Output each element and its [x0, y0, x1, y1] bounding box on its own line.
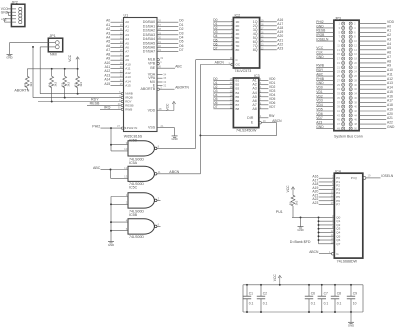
IC3 pin A8 (VD7)	[252, 105, 275, 111]
U1 pin RDY	[119, 98, 131, 104]
connector JP1 NMI	[48, 34, 62, 56]
svg-text:3k3: 3k3	[29, 82, 33, 87]
svg-text:74LS245DW: 74LS245DW	[236, 128, 257, 132]
svg-text:RESB: RESB	[90, 102, 100, 106]
connector JP3 System Bus	[334, 16, 363, 138]
U1 pin VSS / ground	[148, 124, 178, 141]
capacitor C9 10	[347, 284, 357, 313]
svg-text:3k3: 3k3	[295, 200, 299, 205]
svg-text:D7: D7	[213, 46, 217, 50]
wire JP3 A18	[359, 103, 393, 107]
wire RDY net	[38, 98, 121, 103]
JP3 pin 20	[349, 61, 357, 65]
ground at JP1	[6, 54, 12, 59]
IC2 pin 6Q (A21)	[253, 38, 284, 44]
U1 pin A8	[106, 52, 129, 58]
U1 pin MX	[150, 80, 167, 84]
svg-text:ABCN: ABCN	[169, 170, 179, 174]
ground at decoupling rail	[348, 312, 354, 328]
svg-text:PHI2: PHI2	[92, 124, 100, 128]
IC3 pin B1 (D0)	[213, 77, 239, 83]
JP3 pin 35	[337, 96, 345, 100]
IC3 pin A7 (VD6)	[252, 101, 275, 107]
svg-text:VCC: VCC	[68, 54, 72, 62]
svg-text:10: 10	[353, 302, 357, 306]
svg-text:C7: C7	[324, 292, 328, 296]
svg-text:13: 13	[124, 175, 128, 179]
IC3 pin B2 (D1)	[213, 81, 239, 87]
svg-text:GND: GND	[6, 56, 12, 60]
resistor R3 3k3 (ABORTN pull-up)	[23, 69, 33, 91]
svg-text:JP2: JP2	[12, 0, 18, 4]
IC2 pin 3D (D2)	[213, 26, 240, 32]
wire JP3 A7	[359, 55, 391, 59]
U1 pin A9	[106, 57, 129, 63]
wire JP3 A20	[359, 112, 393, 116]
svg-text:R1: R1	[73, 82, 77, 86]
svg-text:IC4: IC4	[335, 169, 341, 173]
JP3 pin 29	[337, 83, 345, 87]
wire JP3 VD6	[316, 112, 334, 116]
wire JP3 A23	[316, 121, 334, 125]
svg-text:P=Q: P=Q	[351, 176, 358, 180]
svg-text:D7: D7	[179, 48, 183, 52]
wire JP3 ABC	[316, 72, 334, 76]
JP3 pin 40	[349, 105, 357, 109]
svg-text:VCC: VCC	[286, 185, 290, 193]
svg-text:RWB: RWB	[125, 107, 132, 111]
wire JP3 VD7	[316, 116, 334, 120]
svg-text:PU1: PU1	[276, 210, 283, 214]
JP3 pin 49	[337, 126, 345, 130]
svg-text:GND: GND	[387, 125, 395, 129]
IC4 pin P7 (A23)	[312, 201, 340, 207]
JP3 pin 6	[349, 30, 356, 34]
svg-text:VCC: VCC	[165, 103, 169, 111]
JP3 pin 31	[337, 87, 345, 91]
svg-text:GND: GND	[171, 137, 177, 141]
wire JP3 A6	[359, 51, 391, 55]
JP3 pin 13	[337, 48, 345, 52]
connector JP2	[1, 0, 25, 26]
wire JP3 RDY	[316, 68, 334, 72]
JP3 pin 4	[349, 26, 356, 30]
JP3 pin 12	[349, 43, 357, 47]
wire JP3 A16	[359, 94, 393, 98]
svg-text:ABORTN: ABORTN	[14, 89, 29, 93]
wire JP3 A14	[359, 86, 393, 90]
note D=Bank $FD	[290, 240, 311, 244]
svg-text:ABCN: ABCN	[215, 61, 225, 65]
svg-text:ABC: ABC	[175, 64, 182, 68]
IC2 pin 7D (D6)	[213, 42, 240, 48]
wire PHI2	[92, 124, 121, 129]
svg-text:D7/BA7: D7/BA7	[143, 50, 155, 54]
IC3 pin E / node ABCN	[251, 119, 282, 125]
JP3 pin 21	[337, 65, 345, 69]
svg-text:3k3: 3k3	[79, 82, 83, 87]
svg-text:A8: A8	[252, 107, 256, 111]
JP3 pin 32	[349, 87, 357, 91]
capacitor C7 0.1	[318, 284, 329, 313]
wire JP3 A15	[359, 90, 393, 94]
svg-text:0.1: 0.1	[263, 302, 268, 306]
wire JP3 VD0	[316, 86, 334, 90]
IC4 pin P=Q / wire IOSELN	[351, 173, 394, 180]
ground at IC4 Q bus	[297, 217, 303, 232]
capacitor C6 0.1	[305, 284, 316, 313]
U1 pin D5/BA5	[143, 40, 184, 46]
wire JP3 A3	[359, 37, 391, 41]
U1 pin D7/BA7	[143, 48, 184, 54]
IC4 pin P6 (A22)	[312, 197, 340, 203]
wire JP3 VD2	[316, 94, 334, 98]
svg-text:A15: A15	[125, 84, 131, 88]
IC3 pin B5 (D4)	[213, 93, 239, 99]
IC2 pin 5D (D4)	[213, 34, 240, 40]
U1 pin MLB	[148, 56, 164, 62]
IC4 pin P3 (A19)	[312, 186, 340, 192]
U1 pin D4/BA4	[143, 35, 184, 41]
svg-text:R4: R4	[47, 82, 51, 86]
JP3 pin 14	[349, 48, 357, 52]
JP3 pin 42	[349, 109, 357, 113]
JP3 pin 46	[349, 118, 357, 122]
wire JP3 A9	[359, 64, 391, 68]
wire IRQ net	[100, 106, 121, 110]
wire RESB net	[87, 102, 121, 106]
svg-text:+12: +12	[1, 18, 7, 22]
IC4 pin Q1	[319, 218, 341, 224]
JP3 pin 39	[337, 105, 345, 109]
JP3 pin 26	[349, 74, 357, 78]
svg-text:JP1: JP1	[50, 34, 56, 38]
U1 pin VDA	[148, 72, 167, 76]
U1 pin A2	[106, 27, 129, 33]
svg-text:11: 11	[158, 170, 161, 174]
svg-text:NMI: NMI	[50, 52, 57, 56]
JP3 pin 25	[337, 74, 345, 78]
svg-text:JP3: JP3	[335, 16, 341, 20]
svg-text:R2: R2	[60, 82, 64, 86]
wire JP3 PHIB	[316, 77, 334, 81]
JP3 pin 3	[338, 26, 344, 30]
power VCC pull-ups	[68, 54, 79, 69]
svg-text:IC5C: IC5C	[129, 186, 138, 190]
wire JP3 A5	[359, 46, 391, 50]
IC3 pin B6 (D5)	[213, 97, 239, 103]
svg-text:VDD: VDD	[148, 109, 156, 113]
wire JP3 VDD	[359, 20, 394, 24]
JP3 pin 19	[337, 61, 345, 65]
capacitor C1 0.1	[243, 284, 254, 313]
svg-text:B8: B8	[236, 107, 240, 111]
U1 pin IRQB	[119, 94, 132, 100]
IC2 pin 2D (D1)	[213, 22, 240, 28]
svg-text:D=Bank $FD: D=Bank $FD	[290, 240, 311, 244]
svg-text:System Bus Conn: System Bus Conn	[334, 134, 363, 138]
svg-text:IC5A: IC5A	[129, 161, 138, 165]
svg-text:GND: GND	[348, 324, 354, 328]
JP3 pin 10	[349, 39, 357, 43]
IC3 pin B7 (D6)	[213, 101, 239, 107]
svg-text:10: 10	[124, 147, 128, 151]
svg-text:C1: C1	[249, 292, 253, 296]
svg-text:RW: RW	[269, 114, 275, 118]
IC4 pin Q6	[319, 237, 341, 243]
JP3 pin 30	[349, 83, 357, 87]
wire JP3 IOSELN	[316, 37, 334, 41]
U1 pin BE / wire ABC	[150, 64, 182, 70]
IC4 pin P2 (A18)	[312, 182, 340, 188]
svg-text:IC5B: IC5B	[129, 213, 138, 217]
svg-text:0.1: 0.1	[311, 302, 316, 306]
JP3 pin 33	[337, 92, 345, 96]
wire JP3 GND	[316, 125, 334, 129]
IC4 pin P4 (A20)	[312, 190, 340, 196]
JP3 pin 15	[337, 52, 345, 56]
IC3 pin A1 (VD0)	[252, 77, 275, 83]
svg-text:3k3: 3k3	[66, 82, 70, 87]
comparator IC4 74LS688DW	[334, 169, 363, 263]
U1 pin A12	[104, 69, 131, 75]
svg-text:DIR: DIR	[247, 116, 254, 120]
IC2 pin 8D (D7)	[213, 46, 240, 52]
svg-text:GND: GND	[316, 125, 324, 129]
power VCC at R6	[286, 185, 295, 195]
svg-text:74LVC573: 74LVC573	[235, 69, 252, 73]
svg-text:3k3: 3k3	[53, 82, 57, 87]
svg-text:P7: P7	[336, 203, 340, 207]
IC2 pin 1D (D0)	[213, 18, 240, 24]
JP3 pin 45	[337, 118, 345, 122]
U1 pin RWB	[118, 106, 133, 112]
gate IC5D 74LS00 (PHI2 inverter)	[111, 138, 196, 161]
U1 pin A15	[104, 82, 131, 88]
svg-text:C2: C2	[263, 292, 267, 296]
svg-text:ABC: ABC	[93, 166, 101, 170]
JP3 pin 41	[337, 109, 345, 113]
U1 pin RESB	[118, 102, 134, 108]
svg-text:IOSELN: IOSELN	[381, 174, 394, 178]
U1 pin VDD / power VCC	[148, 101, 176, 112]
svg-text:74LS00D: 74LS00D	[129, 235, 144, 239]
IC4 pin P1 (A17)	[312, 178, 340, 184]
wire JP3 VCC	[316, 46, 334, 50]
svg-text:12: 12	[124, 166, 128, 170]
svg-text:IC2: IC2	[235, 14, 241, 18]
wire JP3 A21	[359, 116, 393, 120]
wire JP3 A13	[359, 81, 393, 85]
U1 pin A4	[106, 35, 129, 41]
JP3 pin 7	[338, 35, 344, 39]
U1 pin A6	[106, 44, 129, 50]
JP3 pin 22	[349, 65, 357, 69]
wire JP3 RWB	[316, 64, 334, 68]
svg-text:ABCN: ABCN	[309, 250, 319, 254]
wire JP3 GND	[359, 125, 395, 129]
svg-text:Q7: Q7	[336, 242, 340, 246]
svg-text:BE: BE	[150, 66, 155, 70]
svg-text:C9: C9	[353, 292, 357, 296]
U1 pin A1	[106, 23, 129, 29]
node ABCN at gate output	[169, 170, 179, 174]
wire JP3 VD3	[316, 99, 334, 103]
wire JP3 GND	[316, 81, 334, 85]
svg-text:GND: GND	[1, 10, 9, 14]
wire JP3 A11	[359, 72, 393, 76]
U1 pin ABORTB / wire ABORTN	[140, 85, 189, 91]
svg-text:R6: R6	[289, 201, 293, 205]
svg-text:GND: GND	[108, 243, 114, 247]
IC4 pin P5 (A21)	[312, 193, 340, 199]
wire JP3 A8	[359, 59, 391, 63]
IC4 pin P0 (A16)	[312, 175, 340, 181]
JP3 pin 23	[337, 70, 345, 74]
wire JP1 pin1 to GND	[10, 43, 49, 55]
wire JP3 A10	[359, 68, 393, 72]
U1 pin VPB	[148, 60, 162, 66]
wire IRQB net	[32, 46, 121, 99]
JP3 pin 16	[349, 52, 357, 56]
JP3 pin 47	[337, 122, 345, 126]
JP3 pin 34	[349, 92, 357, 96]
JP3 pin 36	[349, 96, 357, 100]
wire JP3 A19	[359, 107, 393, 111]
IC3 pin A5 (VD4)	[252, 93, 275, 99]
IC2 pin 3Q (A18)	[253, 26, 284, 32]
wire JP3 A17	[359, 99, 393, 103]
IC2 pin 5Q (A20)	[253, 34, 284, 40]
wire JP3 A0	[359, 24, 391, 28]
wire JP3 A1	[359, 29, 391, 33]
svg-text:A23: A23	[277, 46, 283, 50]
wire ABCN net (gate IC5A output)	[199, 65, 276, 174]
JP3 pin 11	[337, 43, 345, 47]
wire JP3 GND	[316, 55, 334, 59]
JP3 pin 24	[349, 70, 357, 74]
ground at gates	[108, 242, 114, 247]
wire JP3 VD1	[316, 90, 334, 94]
latch IC2 74LVC573	[233, 14, 259, 73]
svg-text:8Q: 8Q	[253, 48, 258, 52]
IC4 pin Q2	[319, 221, 341, 227]
svg-text:ABORTN: ABORTN	[175, 85, 189, 89]
svg-text:C6: C6	[311, 292, 315, 296]
JP3 pin 1	[338, 22, 344, 26]
capacitor C2 0.1	[257, 284, 268, 313]
svg-text:74LS688DW: 74LS688DW	[337, 259, 358, 263]
IC2 pin 4D (D3)	[213, 30, 240, 36]
wire PHI2 rail to gate IC5D	[110, 128, 112, 151]
svg-text:VPB: VPB	[148, 62, 156, 66]
resistor R6 3k3 pull-up (bank compare)	[289, 195, 299, 217]
IC4 pin Q3	[319, 225, 341, 231]
wire gate IC5D output to IC2 latch enable	[196, 60, 234, 149]
U1 pin A13	[104, 73, 131, 79]
JP3 pin 2	[349, 22, 356, 26]
U1 pin D6/BA6	[143, 44, 184, 50]
IC3 pin B4 (D3)	[213, 89, 239, 95]
IC2 pin 4Q (A19)	[253, 30, 284, 36]
wire JP3 IRQB	[316, 33, 334, 37]
JP3 pin 28	[349, 78, 357, 82]
wire JP3 VD4	[316, 103, 334, 107]
IC2 pin OC / node ABCN	[215, 61, 241, 67]
U1 pin PHI2-IN	[117, 124, 137, 130]
JP3 pin 17	[337, 57, 345, 61]
resistor R1 3k3 (NMIB pull-up)	[73, 69, 83, 94]
svg-text:D7: D7	[213, 105, 217, 109]
wire JP3 CLK	[316, 51, 334, 55]
gate IC5C 74LS00 (unused)	[111, 186, 161, 214]
wire ABC net	[93, 166, 111, 179]
JP3 pin 5	[338, 30, 344, 34]
svg-text:VD7: VD7	[269, 105, 276, 109]
U1 pin D0/BA0	[143, 19, 184, 25]
capacitor C8 0.1	[331, 284, 342, 313]
JP3 pin 18	[349, 57, 357, 61]
wire JP3 A4	[359, 42, 391, 46]
wire Q bus tie	[292, 216, 319, 243]
svg-text:GND: GND	[297, 228, 303, 232]
wire JP3 PHI2	[316, 20, 334, 24]
U1 pin VPA	[148, 76, 166, 80]
JP3 pin 43	[337, 113, 345, 117]
power VCC at decoupling rail	[273, 274, 282, 286]
JP3 pin 50	[349, 126, 357, 130]
svg-text:0.1: 0.1	[324, 302, 329, 306]
IC4 pin Q7	[319, 240, 341, 246]
svg-text:PHI2 IN: PHI2 IN	[127, 126, 138, 130]
IC4 pin G / node ABCN	[309, 250, 339, 256]
U1 pin D1/BA1	[143, 23, 184, 29]
wire JP3 A2	[359, 33, 391, 37]
resistor R2 3k3 (IRQB pull-up)	[60, 69, 70, 98]
IC3 pin A6 (VD5)	[252, 97, 275, 103]
IC3 pin B8 (D7)	[213, 105, 239, 111]
node PU1	[276, 210, 283, 214]
svg-text:IC3: IC3	[254, 74, 260, 78]
JP3 pin 27	[337, 78, 345, 82]
U1 pin D3/BA3	[143, 31, 184, 37]
U1 pin A11	[105, 65, 131, 71]
svg-text:C8: C8	[337, 292, 341, 296]
IC2 pin 6D (D5)	[213, 38, 240, 44]
svg-text:VSS: VSS	[148, 126, 156, 130]
wire JP3 GND	[316, 24, 334, 28]
U1 pin A14	[104, 78, 131, 84]
svg-text:VCC: VCC	[273, 274, 277, 282]
svg-text:0.1: 0.1	[249, 302, 254, 306]
JP3 pin 9	[338, 39, 344, 43]
svg-text:U1: U1	[124, 14, 129, 18]
svg-text:A23: A23	[312, 201, 318, 205]
IC3 pin DIR / node RW	[247, 114, 275, 120]
JP3 pin 44	[349, 113, 357, 117]
U1 pin A7	[106, 48, 129, 54]
IC4 pin Q5	[319, 233, 341, 239]
JP3 pin 8	[349, 35, 356, 39]
gate IC5A 74LS00 (ABC buffer)	[111, 161, 201, 186]
wire decoupling rail top	[243, 285, 363, 312]
svg-text:GND: GND	[316, 55, 324, 59]
U1 pin NMIB	[119, 90, 133, 96]
wire JP3 VD5	[316, 107, 334, 111]
IC2 pin 1Q (A16)	[253, 18, 284, 24]
U1 pin A10	[104, 61, 131, 67]
resistor R4 3k3 (RDY pull-up)	[47, 69, 57, 102]
